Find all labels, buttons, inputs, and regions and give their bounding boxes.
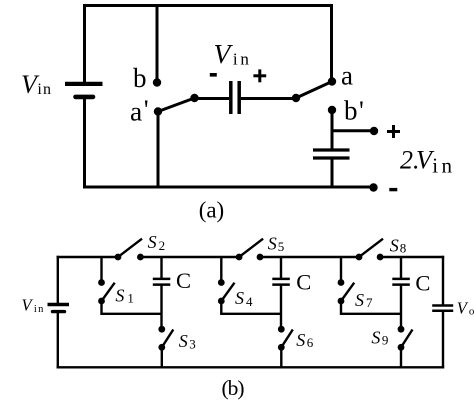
- switch S6 bottom contact: [278, 344, 285, 351]
- wire S7 bottom to tee: [341, 301, 401, 314]
- switch S1 bottom contact: [98, 298, 105, 305]
- switch S5 right contact: [257, 254, 264, 261]
- svg-text:C: C: [176, 268, 191, 293]
- capacitor C flying (a): [231, 81, 239, 114]
- wire Cout to bottom rail: [331, 158, 334, 187]
- label + output polarity: [387, 125, 400, 138]
- capacitor C2: [272, 279, 290, 285]
- wire S9 to bottom rail: [400, 347, 402, 368]
- node a: [328, 77, 336, 85]
- wire middle branch lower (a): [157, 110, 160, 189]
- svg-text:2.Vin: 2.Vin: [400, 146, 456, 178]
- wire C2 bottom column: [280, 285, 282, 330]
- wire top rail segment 2 (b): [140, 256, 239, 258]
- wire bottom rail (a): [83, 186, 374, 189]
- svg-text:S9: S9: [371, 328, 388, 348]
- battery Vin (a): [65, 84, 103, 97]
- switch S8 left contact: [356, 254, 363, 261]
- svg-text:S4: S4: [235, 288, 253, 309]
- svg-text:S1: S1: [115, 286, 133, 306]
- switch S1 blade: [102, 283, 115, 301]
- svg-text:S7: S7: [355, 290, 373, 310]
- battery Vin (b): [48, 305, 70, 312]
- node b: [153, 78, 161, 86]
- wire stub S4 from top rail: [220, 256, 222, 283]
- svg-text:Vin: Vin: [22, 296, 45, 315]
- wire capacitor C1 stub from top rail: [160, 256, 162, 279]
- switch S4 blade: [221, 283, 234, 301]
- wire right rail lower (b): [442, 311, 444, 369]
- svg-text:a: a: [341, 61, 353, 91]
- wire left rail upper (a): [83, 4, 86, 82]
- node b': [328, 106, 336, 114]
- wire capacitor C3 stub from top rail: [400, 256, 402, 279]
- svg-text:C: C: [415, 271, 430, 296]
- wire top rail segment 1 (b): [57, 256, 118, 258]
- wire capacitor C2 stub from top rail: [280, 256, 282, 279]
- label - output polarity: [389, 188, 397, 191]
- wire S4 bottom to tee: [221, 301, 281, 314]
- switch S1 top contact: [98, 279, 105, 286]
- switch S6 blade: [281, 330, 293, 348]
- wire left rail upper (b): [57, 256, 59, 303]
- label + polarity flying cap: [253, 69, 266, 82]
- switch S3 top contact: [158, 326, 165, 333]
- switch S4 top contact: [218, 279, 225, 286]
- wire bottom rail (b): [57, 366, 445, 368]
- node - terminal: [369, 183, 377, 191]
- svg-text:b': b': [344, 96, 364, 126]
- switch S5 left contact: [236, 254, 243, 261]
- label - polarity flying cap: [210, 73, 217, 77]
- switch S7 top contact: [338, 279, 345, 286]
- svg-text:(b): (b): [222, 376, 245, 400]
- switch S9 top contact: [398, 326, 405, 333]
- wire stub S1 from top rail: [100, 256, 102, 283]
- capacitor C3: [392, 279, 410, 285]
- wire b' down to output capacitor: [331, 110, 334, 149]
- switch S9 bottom contact: [398, 344, 405, 351]
- wire S1 bottom to tee: [102, 301, 162, 314]
- node switch pivot left: [190, 94, 198, 102]
- svg-text:Vin: Vin: [21, 70, 52, 99]
- svg-text:S2: S2: [148, 232, 166, 253]
- node a': [154, 107, 162, 115]
- node + terminal: [370, 127, 378, 135]
- svg-text:Vin: Vin: [214, 38, 252, 69]
- wire right rail upper (b): [442, 256, 444, 306]
- wire flying capacitor right lead: [241, 97, 296, 100]
- wire S3 to bottom rail: [161, 347, 163, 368]
- switch S7 bottom contact: [338, 298, 345, 305]
- switch S6 top contact: [278, 326, 285, 333]
- capacitor C1: [153, 279, 171, 285]
- svg-text:a': a': [130, 94, 149, 127]
- switch blade to a: [296, 82, 332, 99]
- svg-text:(a): (a): [199, 198, 225, 223]
- wire right rail (a): [330, 4, 333, 82]
- svg-text:S3: S3: [179, 331, 196, 352]
- switch S2 left contact: [115, 254, 122, 261]
- switch S5 blade: [239, 239, 263, 257]
- svg-text:S6: S6: [296, 330, 314, 350]
- wire top rail (a): [83, 4, 333, 7]
- svg-text:S8: S8: [390, 235, 407, 255]
- switch S8 blade: [359, 239, 383, 257]
- svg-text:C: C: [296, 270, 311, 295]
- wire C3 bottom column: [400, 285, 402, 330]
- wire stub S7 from top rail: [340, 256, 342, 283]
- svg-text:b: b: [133, 63, 147, 93]
- svg-text:Vo: Vo: [457, 298, 474, 317]
- wire flying capacitor left lead: [195, 97, 230, 100]
- wire C1 bottom column: [160, 285, 162, 330]
- switch blade from a': [158, 98, 195, 112]
- wire middle branch upper (a): [156, 4, 159, 83]
- svg-text:S5: S5: [268, 233, 285, 254]
- switch S4 bottom contact: [218, 298, 225, 305]
- wire left rail lower (b): [57, 312, 59, 369]
- capacitor Cout (a): [313, 150, 350, 158]
- wire top rail segment 3 (b): [260, 256, 359, 258]
- wire left rail lower (a): [83, 97, 86, 189]
- switch S7 blade: [341, 283, 354, 301]
- wire to + terminal: [331, 129, 375, 132]
- switch S8 right contact: [377, 254, 384, 261]
- switch S2 blade: [118, 239, 142, 257]
- wire top rail segment 4 (b): [380, 256, 444, 258]
- node switch pivot right: [292, 94, 300, 102]
- switch S3 bottom contact: [158, 344, 165, 351]
- switch S2 right contact: [137, 254, 144, 261]
- switch S9 blade: [401, 330, 413, 348]
- switch S3 blade: [162, 330, 174, 348]
- wire S6 to bottom rail: [280, 347, 282, 368]
- capacitor Vo output: [432, 306, 453, 311]
